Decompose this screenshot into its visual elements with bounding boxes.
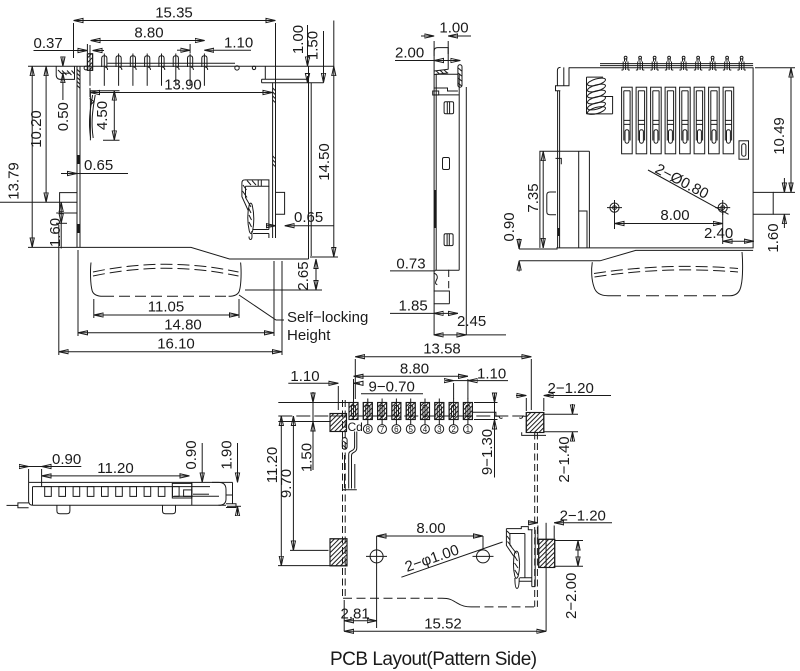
svg-text:6: 6 [394, 425, 399, 434]
svg-text:2.40: 2.40 [704, 225, 733, 242]
svg-text:0.90: 0.90 [52, 451, 81, 468]
left block notch [556, 158, 562, 164]
dim 4.50 [90, 90, 119, 92]
pins row side view [87, 45, 207, 86]
top view corner block [557, 67, 569, 85]
svg-text:1.10: 1.10 [290, 368, 319, 385]
svg-text:8.00: 8.00 [416, 520, 445, 537]
svg-text:7: 7 [380, 425, 385, 434]
dim 0.73 [390, 270, 435, 272]
svg-text:0.37: 0.37 [34, 35, 63, 52]
svg-text:2.65: 2.65 [295, 261, 312, 290]
dim 13.58 [355, 356, 531, 358]
dim 16.10 [59, 351, 282, 353]
side view left wall [76, 66, 78, 247]
pcb outline right dashed [534, 433, 536, 607]
dim 11.05 [94, 314, 239, 316]
svg-text:1.50: 1.50 [299, 443, 316, 472]
svg-text:11.20: 11.20 [97, 460, 133, 477]
svg-text:9−0.70: 9−0.70 [369, 379, 415, 396]
latch box D [172, 483, 192, 498]
dim 8.00 E [377, 535, 483, 537]
dim 2-2.00 [577, 541, 579, 567]
dim 0.37 [34, 50, 88, 52]
pads row [349, 399, 472, 420]
bottom view body [29, 482, 233, 505]
svg-text:2−2.00: 2−2.00 [563, 573, 580, 619]
top-right tab [262, 66, 324, 83]
card bottom dashed top view [608, 295, 730, 297]
dim 10.49 [790, 68, 792, 193]
pcb outline bottom dashed [343, 597, 442, 599]
svg-text:10.20: 10.20 [28, 110, 45, 148]
dim 0.90 D right [201, 443, 203, 482]
svg-text:2.00: 2.00 [395, 45, 424, 62]
inner top line [108, 62, 236, 64]
hole right [718, 203, 727, 212]
svg-text:13.58: 13.58 [423, 341, 461, 358]
svg-text:9−1.30: 9−1.30 [479, 429, 496, 475]
svg-text:1.00: 1.00 [439, 20, 468, 37]
front view right flange strip [458, 65, 462, 87]
svg-text:2.81: 2.81 [341, 606, 370, 623]
dim 2.81 [344, 620, 376, 622]
dim 2.00 [395, 60, 460, 62]
dim 1.50 E [278, 402, 349, 404]
end hook circle [235, 66, 239, 70]
dim 2-1.40 [572, 404, 574, 414]
svg-text:1: 1 [466, 425, 471, 434]
spring [587, 76, 613, 116]
dim 7.35 [542, 151, 544, 248]
front view right edges [458, 74, 460, 270]
weld mark lower [77, 224, 79, 233]
card right edge [229, 263, 241, 297]
svg-text:0.73: 0.73 [396, 256, 425, 273]
card right edge top view [730, 252, 743, 296]
front view left edge [433, 71, 435, 271]
dim 2-1.20 top [516, 395, 526, 397]
dim 15.52 [344, 630, 546, 632]
svg-text:2−1.20: 2−1.20 [548, 380, 594, 397]
latch E [506, 527, 535, 589]
dim 0.90 D [19, 466, 29, 468]
svg-text:1.10: 1.10 [477, 366, 506, 383]
left wall double [557, 91, 559, 248]
svg-text:13.90: 13.90 [164, 77, 202, 94]
svg-text:1.60: 1.60 [765, 223, 782, 252]
dim 2-eq1.00 [401, 542, 502, 577]
corner pad TL [330, 414, 347, 432]
front left strip mark [434, 190, 436, 228]
dim 0.90 C [518, 239, 520, 250]
front view tab fold band [434, 69, 448, 74]
dim 1.60 C [783, 178, 785, 192]
svg-text:5: 5 [408, 425, 413, 434]
dim 2-eq0.80 [648, 170, 729, 214]
front foot box [434, 291, 450, 304]
front bottom structure [433, 271, 435, 335]
pins top view [621, 56, 745, 70]
wall dark mark [557, 228, 560, 236]
svg-text:1.90: 1.90 [219, 440, 236, 469]
card left edge top view [592, 262, 608, 296]
outline solid segment at pad9 [472, 412, 499, 416]
dim 1.90 D [237, 443, 239, 482]
front notch [443, 158, 450, 170]
pad LR [539, 539, 555, 567]
svg-text:13.79: 13.79 [6, 162, 23, 200]
side mounting tab [56, 193, 77, 213]
dim 14.80 [78, 332, 274, 334]
right block D [174, 482, 219, 505]
card top curves dashed [93, 264, 239, 272]
right small contact [739, 141, 749, 159]
hook circle 2 [252, 66, 255, 69]
wall seam hatch [77, 70, 80, 89]
svg-text:1.10: 1.10 [224, 35, 253, 52]
dim 1.10 A [177, 49, 190, 51]
teeth [45, 487, 179, 497]
hole E right [477, 550, 490, 563]
dim 11.20 E [280, 416, 282, 566]
hole E left [370, 550, 383, 563]
dim 1.60 A [60, 202, 62, 223]
dim 0.65 left [61, 173, 77, 175]
dim 11.20 D [42, 475, 190, 477]
dim 1.10 E left [288, 382, 338, 384]
pcb outline left dashed [342, 400, 344, 599]
dim 10.20 [45, 66, 47, 202]
svg-text:0.90: 0.90 [501, 212, 518, 241]
svg-text:0.65: 0.65 [294, 209, 323, 226]
top-right corner body edge [275, 66, 277, 83]
latch spring leaf [89, 95, 92, 138]
svg-text:4.50: 4.50 [94, 101, 111, 130]
svg-text:2−Ø0.80: 2−Ø0.80 [652, 161, 711, 203]
dim 15.35 [74, 20, 276, 22]
svg-text:11.20: 11.20 [264, 447, 281, 483]
left foot D [18, 503, 29, 508]
svg-text:10.49: 10.49 [771, 117, 788, 155]
dim 1.50 A [323, 31, 325, 83]
dim 1.00 B [433, 41, 435, 56]
svg-text:2−1.40: 2−1.40 [556, 436, 573, 482]
dim 2.45 [434, 334, 467, 336]
dim 2.65 [315, 259, 317, 290]
svg-text:8.80: 8.80 [134, 25, 163, 42]
pin bar [600, 63, 753, 65]
right outer wall [308, 66, 310, 259]
svg-text:2: 2 [451, 425, 456, 434]
svg-text:2.45: 2.45 [457, 313, 486, 330]
dim 0.65 right [266, 225, 276, 227]
inner wall seam hatch [273, 88, 276, 103]
dim 9-0.70 [361, 393, 423, 395]
svg-text:7.35: 7.35 [525, 183, 542, 212]
svg-text:15.52: 15.52 [424, 616, 462, 633]
svg-text:8.80: 8.80 [400, 360, 429, 377]
svg-text:0.90: 0.90 [183, 440, 200, 469]
shell lower edge top view [519, 248, 558, 250]
dim 1.10 E right [445, 380, 454, 382]
pcb outline top dashed [278, 415, 524, 417]
latch hook side view [242, 180, 269, 240]
dim 8.80 [91, 40, 205, 42]
svg-text:4: 4 [423, 425, 428, 434]
hook circle at wall [84, 66, 88, 70]
dim 1.85 [390, 312, 434, 314]
svg-text:Cd: Cd [348, 420, 363, 434]
svg-text:1.50: 1.50 [305, 31, 322, 60]
pad LL [330, 539, 347, 566]
svg-text:2−1.20: 2−1.20 [560, 508, 606, 525]
dim 1.00 A [307, 25, 309, 66]
left block tab [547, 192, 556, 215]
svg-text:Height: Height [287, 327, 331, 344]
right tab top view [753, 192, 773, 214]
svg-text:2−φ1.00: 2−φ1.00 [403, 541, 462, 575]
self-locking leader [239, 295, 284, 320]
dim 9.70 [292, 416, 294, 550]
dim 2.40 [723, 240, 754, 242]
dim 9-1.30 [494, 393, 496, 403]
hole left [610, 203, 619, 212]
svg-text:15.35: 15.35 [155, 5, 193, 22]
dim 13.79 [31, 66, 33, 247]
dim 0.50 [62, 57, 64, 67]
dim 8.80 E [354, 375, 468, 377]
front lower window [444, 234, 453, 246]
bottom cover line with slope [77, 247, 309, 259]
front view top tab [434, 48, 448, 71]
svg-text:3: 3 [437, 425, 442, 434]
svg-text:1.60: 1.60 [47, 218, 64, 247]
svg-text:14.80: 14.80 [164, 317, 202, 334]
side view left step [56, 66, 74, 79]
dim 14.50 [333, 21, 335, 67]
weld mark upper [77, 155, 79, 164]
svg-text:Self−locking: Self−locking [287, 309, 368, 326]
wall side tab [276, 192, 285, 214]
svg-text:14.50: 14.50 [316, 143, 333, 181]
left block [540, 151, 590, 248]
top view outline [556, 68, 753, 248]
dim 8.00 C [615, 223, 723, 225]
svg-text:16.10: 16.10 [157, 336, 195, 353]
card left edge [91, 263, 103, 297]
svg-text:PCB Layout(Pattern Side): PCB Layout(Pattern Side) [330, 649, 537, 670]
svg-text:1.85: 1.85 [399, 298, 428, 315]
inner right wall double [272, 83, 274, 238]
svg-text:11.05: 11.05 [148, 299, 184, 316]
side view top cover line [56, 65, 334, 67]
svg-text:8.00: 8.00 [660, 207, 689, 224]
dim 2-1.20 lower [528, 522, 538, 524]
svg-text:0.50: 0.50 [55, 102, 72, 131]
front upper window [444, 102, 454, 114]
card curves dashed top view [594, 266, 738, 273]
card bottom dashed [103, 295, 229, 297]
dim 13.90 [90, 92, 273, 94]
corner pad TR [526, 413, 544, 433]
pin number circles [363, 420, 472, 434]
svg-text:0.65: 0.65 [84, 157, 113, 174]
contact slots [622, 87, 734, 154]
front view upper body [436, 73, 458, 75]
block inner rect [579, 211, 587, 248]
svg-text:8: 8 [366, 425, 371, 434]
feet D [57, 505, 70, 514]
card detect contour [342, 438, 347, 450]
